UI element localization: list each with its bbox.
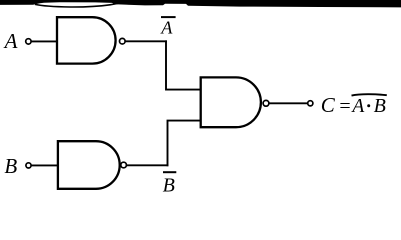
NAND gate U3 (output gate) [201, 77, 261, 127]
wire: Abar down and right into U3 top input [166, 40, 201, 89]
svg-text:B: B [374, 95, 386, 117]
wire: Bbar up and right into U3 bottom input [168, 121, 201, 167]
bubble on U1 output [120, 38, 126, 44]
bubble on U2 output [121, 162, 127, 168]
NAND gate U2 (inverter, bottom left) [58, 141, 120, 189]
svg-text:=: = [339, 95, 350, 117]
svg-text:A: A [160, 17, 173, 37]
label Abar overline [161, 16, 176, 18]
dot operator [367, 104, 370, 107]
input terminal circle (B) [26, 163, 31, 168]
label Bbar overline [163, 171, 176, 173]
wire: U1 output to node, labelled Abar [125, 40, 167, 42]
wire: U3 output to terminal C [269, 102, 307, 104]
scan artifact: black band along top edge [0, 0, 401, 7]
output terminal circle (C) [308, 101, 313, 106]
overline over A.B [352, 94, 387, 95]
scan artifact: wavy torn-edge stroke below band [35, 3, 118, 7]
wire: A terminal to gate U1 [31, 40, 57, 42]
NAND gate U1 (inverter, top left) [57, 17, 116, 63]
svg-text:A: A [350, 96, 364, 117]
svg-text:B: B [4, 154, 17, 178]
svg-text:C: C [321, 93, 336, 117]
svg-text:B: B [163, 174, 175, 195]
input terminal circle (A) [26, 39, 31, 44]
wire: U2 output to node, labelled Bbar [127, 164, 169, 166]
wire: B terminal to gate U2 [31, 164, 58, 166]
svg-text:A: A [3, 29, 18, 53]
bubble on U3 output [263, 100, 269, 106]
